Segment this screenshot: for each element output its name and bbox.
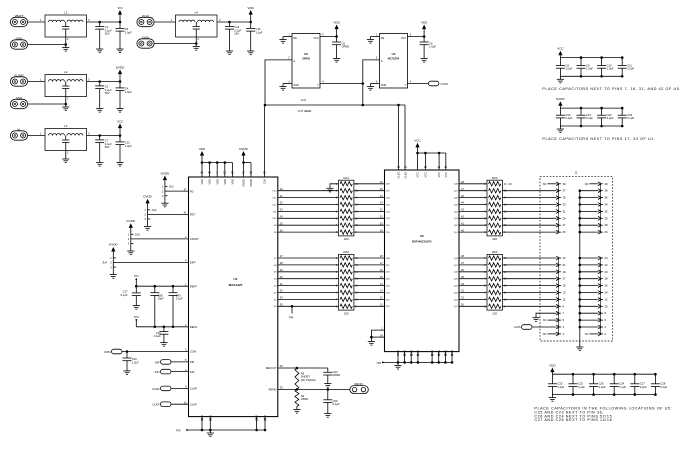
wire ground bus to pin J1-4	[580, 326, 598, 328]
svg-text:VCC: VCC	[444, 172, 448, 178]
svg-text:1.0µF: 1.0µF	[125, 90, 132, 94]
jumper JU4 3-pin header	[112, 258, 114, 267]
ground at U4 GND	[370, 84, 372, 87]
svg-text:VCC: VCC	[416, 172, 420, 178]
svg-text:0.1µF: 0.1µF	[586, 116, 593, 120]
wire VCC bus to U5 pins 7 18 31 42	[418, 152, 446, 154]
svg-text:GND: GND	[403, 350, 407, 356]
wire RA4 to pin J1-9	[502, 305, 556, 307]
wire COM to U1 pin 3	[122, 351, 189, 353]
wire RA4 to pin J1-21	[502, 264, 556, 266]
wire node CLK from JU1 to U1 pin 33	[264, 105, 266, 177]
wires U1 data bus to RA2	[278, 257, 339, 259]
capacitor C12 1.0µF	[119, 136, 121, 142]
ground U5 ground rail	[397, 362, 399, 365]
resistor R2 OPEN	[295, 389, 299, 406]
svg-text:L4: L4	[195, 10, 199, 14]
wire ground bus to pin J1-8	[580, 312, 598, 314]
capacitor C44 OPEN	[327, 368, 329, 372]
svg-text:12: 12	[605, 297, 609, 301]
svg-text:OPEN: OPEN	[342, 45, 350, 49]
capacitor C14 2.2uF 16V	[229, 22, 231, 26]
capacitor C9 1.0µF	[580, 58, 582, 66]
svg-text:CLKR: CLKR	[190, 387, 197, 391]
svg-text:DVDD: DVDD	[249, 179, 253, 186]
svg-text:NC: NC	[585, 182, 589, 186]
wire GND pad to L4 shield	[154, 43, 196, 45]
svg-text:CLK: CLK	[263, 179, 267, 184]
svg-text:0.1µF: 0.1µF	[121, 293, 128, 297]
svg-text:VCC: VCC	[313, 36, 319, 40]
ground U1 ground rail	[209, 430, 211, 433]
wire RA3 to pin J1-33	[502, 204, 556, 206]
wire ground bus to pin J1-32	[580, 210, 598, 212]
svg-text:GND: GND	[444, 350, 448, 356]
svg-text:PLACE CAPACITORS NEXT TO PINS: PLACE CAPACITORS NEXT TO PINS 17, 34 OF …	[542, 137, 655, 141]
ground below C1	[99, 46, 101, 49]
svg-text:RA3: RA3	[492, 176, 498, 180]
wire filter shield to ground	[65, 151, 67, 157]
ground below C12	[119, 160, 121, 163]
wire CLKR to U1 pin 9	[171, 387, 189, 389]
ground below C14	[229, 48, 231, 51]
capacitor C7 0.1µF	[99, 136, 101, 140]
svg-text:220: 220	[492, 237, 497, 241]
wire ground bus to pin J1-34	[580, 204, 598, 206]
svg-text:GND: GND	[430, 350, 434, 356]
svg-text:VDD: VDD	[208, 179, 212, 185]
wire ground bus to pin J1-26	[580, 231, 598, 233]
svg-text:GND: GND	[263, 415, 267, 421]
ground bypass bank VDD	[551, 395, 553, 398]
ground bypass bank DVDD	[559, 126, 561, 129]
svg-text:TP1: TP1	[134, 274, 139, 278]
svg-text:GND: GND	[437, 350, 441, 356]
ground below C6	[423, 56, 425, 59]
svg-text:VDD: VDD	[549, 363, 556, 367]
ground at U2 OE	[282, 37, 284, 40]
svg-text:21: 21	[563, 263, 567, 267]
svg-text:23: 23	[563, 256, 567, 260]
svg-text:GND: GND	[293, 84, 299, 87]
wire ground bus to pin J1-38	[580, 190, 598, 192]
svg-text:CUT HERE: CUT HERE	[298, 109, 312, 113]
wire pin J1-7 to ground	[536, 313, 556, 315]
svg-text:A: A	[293, 59, 295, 63]
svg-text:VCC: VCC	[414, 139, 421, 143]
wire U4 VCC pin	[408, 36, 425, 38]
svg-text:INP: INP	[155, 361, 160, 365]
ground at U2 GND	[282, 84, 284, 87]
wire ground bus to pin J1-22	[580, 264, 598, 266]
capacitor C8 1.0µF	[559, 58, 561, 66]
svg-text:A: A	[381, 59, 383, 63]
svg-text:50V: 50V	[105, 32, 110, 36]
svg-text:20: 20	[605, 270, 609, 274]
wire bypass top rail	[560, 57, 622, 59]
svg-text:2.2µF: 2.2µF	[599, 385, 606, 389]
ground at J1 pin 7	[535, 315, 537, 318]
wire REFOUT from U1 pin 26	[278, 367, 328, 369]
svg-text:0.1µF: 0.1µF	[154, 334, 161, 338]
wire CLK5 to pin J1-3	[533, 326, 556, 328]
svg-text:10µF: 10µF	[158, 297, 165, 301]
wire JU1 to U5 CLK pins	[398, 105, 400, 170]
svg-text:16V: 16V	[234, 32, 239, 36]
ground at RA1 pin 1	[330, 184, 339, 186]
svg-text:TP5: TP5	[376, 361, 381, 365]
jumper JU2 3-pin header	[164, 187, 166, 196]
svg-text:13: 13	[563, 291, 567, 295]
svg-text:REFOUT: REFOUT	[266, 366, 277, 370]
svg-text:Y: Y	[317, 83, 319, 87]
svg-text:0.1µF: 0.1µF	[627, 116, 634, 120]
wire RA4 to pin J1-13	[502, 292, 556, 294]
svg-text:33: 33	[563, 203, 567, 207]
svg-text:220: 220	[492, 311, 497, 315]
wire bypass top rail	[560, 107, 622, 109]
svg-text:1.0µF: 1.0µF	[256, 30, 263, 34]
svg-text:CLKR: CLKR	[152, 387, 159, 391]
wire RA4 to pin J1-17	[502, 278, 556, 280]
svg-text:40: 40	[605, 182, 609, 186]
svg-text:1.0µF: 1.0µF	[586, 67, 593, 71]
wire ground bus to pin J1-24	[580, 257, 598, 259]
wire JU5 pin2 to U1 pin 2	[133, 238, 188, 240]
svg-text:MAX1225: MAX1225	[229, 283, 243, 287]
wire U2.A input from node CLK	[265, 60, 292, 105]
capacitor C23 0.1µF	[572, 374, 574, 384]
svg-text:(PC TRACE): (PC TRACE)	[301, 378, 316, 382]
svg-text:28: 28	[605, 223, 609, 227]
svg-text:TP6: TP6	[176, 428, 181, 432]
svg-text:U2: U2	[304, 52, 308, 56]
svg-text:1.0µF: 1.0µF	[125, 144, 132, 148]
capacitor C11 1.0µF	[621, 58, 623, 66]
svg-text:NC7SZ04: NC7SZ04	[388, 56, 400, 60]
svg-text:U4: U4	[392, 52, 396, 56]
svg-text:36: 36	[605, 196, 609, 200]
svg-text:CLK2: CLK2	[403, 171, 407, 178]
capacitor C1 0.1µF	[99, 22, 101, 26]
capacitor C20 2.2µF	[559, 108, 561, 115]
svg-text:2.2µF: 2.2µF	[557, 385, 564, 389]
svg-text:DVDD: DVDD	[116, 65, 125, 69]
svg-text:REFIN: REFIN	[269, 388, 277, 392]
svg-text:GND: GND	[208, 415, 212, 421]
jumper JU5 3-pin header	[130, 234, 132, 243]
wire bypass top rail	[552, 373, 655, 375]
capacitor C24 0.1µF	[613, 374, 615, 384]
svg-text:TP2: TP2	[134, 315, 139, 319]
wire RA3 to pin J1-37	[502, 190, 556, 192]
capacitor C13 0.1µF	[580, 108, 582, 115]
ground below C29	[327, 411, 329, 414]
svg-text:VCC: VCC	[557, 47, 564, 51]
wire RA3 to pin J1-31	[502, 210, 556, 212]
wire VCLK to L4	[154, 21, 175, 23]
svg-text:32: 32	[605, 209, 609, 213]
wire ground bus to pin J1-20	[580, 271, 598, 273]
wire U4 OE pin to ground	[371, 36, 380, 38]
wire ground bus to pin J1-10	[580, 305, 598, 307]
svg-text:RA4: RA4	[492, 250, 498, 254]
ground below C7	[99, 160, 101, 163]
svg-text:OPEN: OPEN	[302, 56, 309, 60]
wires U1 data bus to RA1	[278, 190, 339, 192]
wire GND to filter ground node	[28, 103, 66, 105]
svg-text:DVDD: DVDD	[556, 97, 565, 101]
svg-text:GND: GND	[450, 350, 454, 356]
resistor R5 SHORT PC TRACE	[295, 368, 299, 389]
ground below C2	[99, 106, 101, 109]
wire U2 OE pin to ground	[283, 36, 292, 38]
wire ground bus to pin J1-28	[580, 224, 598, 226]
svg-text:27: 27	[563, 223, 567, 227]
wire RA3 to pin J1-29	[502, 217, 556, 219]
capacitor C26 2.2µF	[593, 374, 595, 384]
wire JU3 pin2 to U1 pin 41	[150, 213, 188, 215]
svg-text:34: 34	[605, 203, 609, 207]
svg-text:J1: J1	[574, 171, 577, 175]
svg-text:35: 35	[563, 196, 567, 200]
capacitor C5 OPEN	[336, 37, 338, 43]
svg-text:0.1µF: 0.1µF	[578, 385, 585, 389]
svg-text:0.1µF: 0.1µF	[660, 385, 667, 389]
svg-text:11: 11	[563, 297, 566, 301]
svg-text:REFP: REFP	[190, 284, 197, 288]
wire bypass bottom rail	[560, 75, 622, 77]
wire L1 output to VIN	[87, 21, 121, 23]
svg-text:L3: L3	[64, 124, 68, 128]
ground below C16	[250, 48, 252, 51]
wires U5 outputs to RA4	[459, 257, 487, 259]
ground below C30	[126, 368, 128, 371]
capacitor C6 1.0µF	[423, 37, 425, 43]
svg-text:VDD: VDD	[231, 179, 235, 185]
svg-text:PD: PD	[190, 189, 194, 193]
svg-text:220: 220	[344, 311, 349, 315]
wire ground bus to pin J1-12	[580, 298, 598, 300]
svg-text:CLK5: CLK5	[514, 325, 521, 329]
wire RA3 to pin J1-27	[502, 224, 556, 226]
svg-text:26: 26	[605, 230, 609, 234]
jumper JU1 cuttable trace CUT HERE	[265, 104, 405, 106]
ground filter return	[65, 104, 67, 107]
ground below JU2	[164, 196, 166, 201]
svg-text:RST: RST	[190, 213, 196, 217]
wire ground bus to pin J1-36	[580, 197, 598, 199]
svg-text:GND: GND	[396, 350, 400, 356]
svg-text:DVDD: DVDD	[143, 195, 152, 199]
wire VL to L3	[28, 135, 45, 137]
jumper JU3 3-pin header	[147, 210, 149, 219]
svg-text:22: 22	[605, 263, 609, 267]
wire RA3 to pin J1-25	[502, 231, 556, 233]
test point TP1	[135, 279, 137, 286]
svg-text:INP: INP	[190, 360, 195, 364]
ground J1 shield	[579, 344, 581, 347]
svg-text:Y: Y	[405, 83, 407, 87]
svg-text:25: 25	[563, 230, 567, 234]
svg-text:VDD: VDD	[200, 179, 204, 185]
svg-text:JU5: JU5	[135, 233, 140, 237]
svg-text:JU4: JU4	[102, 261, 107, 265]
svg-text:VDD: VDD	[199, 147, 206, 151]
ground below JU3	[147, 219, 149, 224]
wire REFN rail U1 pin 2	[136, 326, 188, 328]
wire CLKP to U1 pin 10	[171, 403, 189, 405]
svg-text:L2: L2	[64, 70, 68, 74]
svg-text:VDD: VDD	[421, 20, 428, 24]
ground below JU4	[112, 267, 114, 272]
svg-text:OE: OE	[293, 37, 297, 40]
test point TP2	[135, 320, 137, 327]
svg-text:10: 10	[605, 304, 609, 308]
wire ground bus to pin J1-6	[580, 319, 598, 321]
svg-text:INN: INN	[190, 370, 195, 374]
svg-text:15: 15	[563, 284, 567, 288]
wire J1 right pin spine top	[600, 184, 602, 232]
ground bypass bank VCC	[559, 76, 561, 79]
wire JU2 pin2 to U1 pin 37	[168, 190, 189, 192]
svg-text:GND: GND	[200, 415, 204, 421]
svg-text:30: 30	[605, 216, 609, 220]
ground below C21	[163, 340, 165, 343]
svg-text:NC: NC	[543, 318, 547, 322]
wire U2 VCC pin	[320, 36, 337, 38]
ground at U5 OE	[370, 339, 372, 342]
svg-text:2.2µF: 2.2µF	[565, 116, 572, 120]
IC U2 OPEN buffer	[292, 34, 320, 89]
capacitor C43 0.1uF	[172, 286, 174, 293]
wire U4 GND pin to ground	[371, 83, 380, 85]
svg-text:JU2: JU2	[169, 185, 174, 189]
svg-text:GND: GND	[381, 84, 387, 87]
capacitor C27 2.2µF	[634, 374, 636, 384]
wire RA4 to pin J1-23	[502, 257, 556, 259]
svg-text:COM: COM	[104, 350, 111, 354]
svg-text:NC: NC	[543, 182, 547, 186]
svg-text:VDD: VDD	[333, 20, 340, 24]
svg-text:0.1µF: 0.1µF	[333, 402, 340, 406]
svg-text:VDD: VDD	[223, 179, 227, 185]
svg-text:C27 AND C28 NEXT TO PINS 14/16: C27 AND C28 NEXT TO PINS 14/16	[534, 418, 612, 422]
svg-text:RA1: RA1	[343, 176, 349, 180]
svg-text:1.0µF: 1.0µF	[565, 67, 572, 71]
svg-text:14: 14	[605, 291, 609, 295]
capacitor C3 1.0µF	[119, 22, 121, 28]
wire RA3 to pin J1-35	[502, 197, 556, 199]
svg-text:29: 29	[563, 216, 567, 220]
svg-text:OPEN: OPEN	[333, 373, 341, 377]
ground below C17	[135, 303, 137, 306]
ground below C4	[119, 106, 121, 109]
capacitor C15 0.1µF	[621, 108, 623, 115]
wire U2.Y output	[320, 83, 363, 85]
svg-text:VIN: VIN	[117, 6, 122, 10]
svg-text:2.2µF: 2.2µF	[132, 360, 139, 364]
wire INN to U1 pin 4	[171, 371, 189, 373]
wire VL.BAT to L2	[28, 81, 45, 83]
wire U4.Y output to CLK5	[407, 83, 428, 85]
svg-text:2.2µF: 2.2µF	[640, 385, 647, 389]
wire VBATT to L1	[28, 21, 45, 23]
svg-text:24: 24	[605, 256, 609, 260]
svg-text:0.1µF: 0.1µF	[176, 297, 183, 301]
svg-text:INN: INN	[155, 370, 160, 374]
wire U5 OE pins to ground	[371, 330, 384, 338]
svg-text:18: 18	[605, 277, 609, 281]
svg-text:1.0µF: 1.0µF	[125, 30, 132, 34]
wire U2 GND pin to ground	[283, 83, 292, 85]
test point TP4 on U1 data line	[291, 305, 294, 308]
ground below C44	[327, 381, 329, 384]
svg-text:16: 16	[605, 284, 609, 288]
svg-text:DVDD: DVDD	[109, 243, 118, 247]
svg-text:CLK5: CLK5	[441, 82, 449, 86]
svg-text:2.2µF: 2.2µF	[607, 116, 614, 120]
svg-text:0.1µF: 0.1µF	[619, 385, 626, 389]
svg-text:COM: COM	[190, 350, 196, 354]
svg-text:JU1: JU1	[301, 98, 307, 102]
svg-text:CLKP: CLKP	[190, 402, 197, 406]
svg-text:REFN: REFN	[190, 325, 197, 329]
svg-text:CLK1: CLK1	[397, 171, 401, 178]
wire ground bus to pin J1-14	[580, 292, 598, 294]
wire U5 ground pins to rail	[397, 352, 399, 363]
svg-text:39: 39	[563, 182, 567, 186]
svg-text:VDD: VDD	[248, 6, 255, 10]
svg-text:GND: GND	[255, 415, 259, 421]
svg-text:VDD: VDD	[215, 179, 219, 185]
wire bypass bottom rail	[560, 125, 622, 127]
wire INP to U1 pin 5	[171, 361, 189, 363]
svg-text:37: 37	[563, 189, 567, 193]
svg-text:NC: NC	[509, 183, 513, 186]
svg-text:CLKP: CLKP	[152, 403, 159, 407]
svg-text:U1: U1	[234, 277, 238, 281]
svg-text:VCC: VCC	[424, 172, 428, 178]
wire J1 left pin spine bottom	[558, 258, 560, 334]
svg-text:1.0µF: 1.0µF	[627, 67, 634, 71]
capacitor C21 0.1uF	[163, 327, 165, 332]
capacitor C2 0.1µF	[99, 82, 101, 86]
svg-text:38: 38	[605, 189, 609, 193]
svg-text:1.0µF: 1.0µF	[607, 67, 614, 71]
capacitor C28 10uF	[154, 286, 156, 293]
svg-text:19: 19	[563, 270, 567, 274]
wire JU4 pin2 to U1 pin 4	[116, 262, 189, 264]
capacitor C4 1.0µF	[119, 82, 121, 88]
ground below C3	[119, 46, 121, 49]
wires U5 outputs to RA3	[459, 183, 487, 185]
capacitor C25 2.2µF	[551, 374, 553, 384]
wire DVDD bus to U1 pins 17 34	[244, 162, 252, 164]
wire ground bus to pin J1-18	[580, 278, 598, 280]
op-amp U1 MAX1225 main ADC IC body	[189, 177, 278, 417]
wire REFP rail U1 pin 1	[136, 285, 188, 287]
svg-text:NC: NC	[543, 332, 547, 336]
wire L4 output to VDD	[217, 21, 251, 23]
svg-text:DVDD: DVDD	[239, 147, 248, 151]
svg-text:PLACE CAPACITORS NEXT TO PINS: PLACE CAPACITORS NEXT TO PINS 7, 18, 31,…	[542, 87, 681, 91]
IC U5 SN74AVC16374 body	[385, 170, 460, 352]
wire bypass bottom rail	[552, 394, 655, 396]
IC U4 NC7SZ04 buffer	[380, 34, 408, 89]
wire ground bus to pin J1-16	[580, 285, 598, 287]
svg-text:DVDD: DVDD	[127, 219, 136, 223]
